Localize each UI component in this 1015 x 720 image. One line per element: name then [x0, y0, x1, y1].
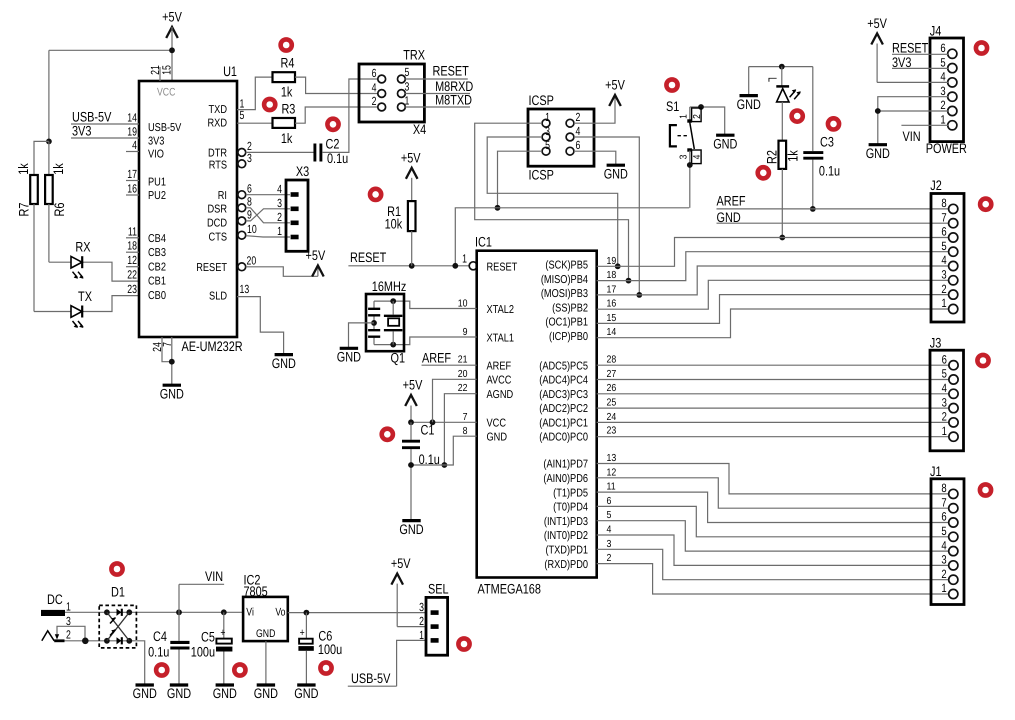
svg-text:RX: RX [75, 240, 90, 255]
svg-text:8: 8 [247, 195, 252, 209]
svg-text:VIN: VIN [205, 569, 223, 584]
svg-text:10: 10 [458, 299, 468, 310]
svg-text:11: 11 [128, 224, 137, 238]
svg-text:7: 7 [941, 495, 947, 509]
svg-text:DTR: DTR [208, 148, 227, 160]
svg-text:CB4: CB4 [148, 233, 166, 245]
svg-text:(ADC0)PC0: (ADC0)PC0 [539, 431, 588, 443]
svg-text:12: 12 [607, 467, 617, 478]
svg-text:USB-5V: USB-5V [72, 110, 112, 125]
svg-text:9: 9 [463, 327, 468, 338]
svg-text:XTAL1: XTAL1 [487, 333, 515, 345]
svg-text:3: 3 [942, 395, 948, 409]
svg-text:+5V: +5V [401, 150, 421, 165]
svg-text:XTAL2: XTAL2 [487, 304, 515, 316]
svg-text:3: 3 [941, 553, 947, 567]
svg-text:RESET: RESET [350, 250, 387, 265]
svg-text:8: 8 [463, 426, 468, 437]
svg-text:10k: 10k [385, 217, 403, 232]
svg-text:RESET: RESET [433, 64, 470, 79]
svg-text:1: 1 [405, 94, 410, 108]
svg-text:6: 6 [941, 225, 947, 239]
svg-text:SEL: SEL [428, 582, 449, 597]
svg-text:(TXD)PD1: (TXD)PD1 [545, 545, 588, 557]
svg-text:0.1u: 0.1u [419, 452, 440, 467]
svg-text:X4: X4 [413, 122, 427, 137]
svg-text:4: 4 [692, 154, 703, 159]
svg-text:J1: J1 [930, 464, 942, 479]
svg-text:GND: GND [272, 356, 296, 371]
svg-text:D1: D1 [111, 585, 125, 600]
svg-text:X3: X3 [296, 164, 310, 179]
svg-text:(AIN1)PD7: (AIN1)PD7 [543, 459, 588, 471]
svg-text:AREF: AREF [422, 350, 451, 365]
svg-text:100u: 100u [191, 645, 215, 660]
svg-text:USB-5V: USB-5V [351, 671, 391, 686]
svg-text:3: 3 [607, 539, 612, 550]
svg-text:IC1: IC1 [475, 235, 492, 250]
svg-text:22: 22 [458, 383, 468, 394]
svg-text:VCC: VCC [487, 418, 506, 430]
svg-text:5: 5 [607, 510, 612, 521]
svg-text:GND: GND [399, 522, 423, 537]
svg-text:10: 10 [247, 222, 257, 236]
svg-text:18: 18 [127, 239, 137, 253]
svg-text:17: 17 [607, 284, 617, 295]
svg-text:19: 19 [607, 256, 617, 267]
svg-text:4: 4 [132, 138, 137, 152]
svg-text:16: 16 [607, 299, 617, 310]
svg-text:+: + [220, 627, 225, 639]
svg-text:TRX: TRX [403, 48, 425, 63]
svg-text:GND: GND [213, 686, 237, 701]
svg-text:CB0: CB0 [148, 290, 166, 302]
svg-text:(INT0)PD2: (INT0)PD2 [544, 530, 588, 542]
svg-text:1: 1 [940, 113, 946, 127]
svg-text:(MISO)PB4: (MISO)PB4 [541, 274, 588, 286]
svg-text:VCC: VCC [157, 87, 175, 99]
svg-text:AREF: AREF [487, 361, 512, 373]
svg-text:Vi: Vi [246, 606, 254, 618]
svg-text:SLD: SLD [209, 291, 227, 303]
svg-text:1: 1 [942, 424, 948, 438]
svg-text:(ADC3)PC3: (ADC3)PC3 [539, 389, 588, 401]
svg-text:15: 15 [160, 65, 174, 75]
svg-text:1: 1 [462, 251, 467, 265]
svg-text:R7: R7 [17, 203, 32, 217]
svg-text:GND: GND [713, 136, 737, 151]
svg-text:GND: GND [256, 628, 275, 640]
svg-text:2: 2 [941, 567, 947, 581]
svg-text:2: 2 [941, 282, 947, 296]
svg-text:GND: GND [337, 350, 361, 365]
svg-text:12: 12 [127, 253, 137, 267]
svg-text:C1: C1 [421, 423, 435, 438]
svg-text:3: 3 [545, 124, 550, 138]
svg-text:CTS: CTS [209, 232, 228, 244]
svg-text:RI: RI [218, 190, 227, 202]
svg-text:ICSP: ICSP [529, 93, 554, 108]
svg-text:17: 17 [127, 167, 137, 181]
svg-text:(ADC5)PC5: (ADC5)PC5 [539, 360, 588, 372]
svg-text:R2: R2 [764, 150, 779, 164]
svg-text:4: 4 [576, 124, 581, 138]
svg-text:2: 2 [419, 614, 424, 628]
svg-text:15: 15 [607, 313, 617, 324]
svg-text:14: 14 [127, 111, 137, 125]
svg-text:2: 2 [607, 553, 612, 564]
svg-text:(ADC1)PC1: (ADC1)PC1 [539, 418, 588, 430]
svg-text:23: 23 [127, 282, 137, 296]
svg-text:3: 3 [405, 80, 410, 94]
svg-text:AGND: AGND [487, 389, 514, 401]
svg-text:4: 4 [941, 538, 947, 552]
svg-text:U1: U1 [223, 64, 237, 79]
svg-text:+5V: +5V [867, 16, 887, 31]
svg-text:4: 4 [607, 525, 612, 536]
svg-text:28: 28 [607, 355, 617, 366]
svg-text:VIN: VIN [903, 129, 921, 144]
svg-text:7805: 7805 [244, 584, 269, 599]
svg-text:GND: GND [160, 386, 184, 401]
svg-text:0.1u: 0.1u [327, 151, 348, 166]
svg-text:6: 6 [247, 182, 252, 196]
svg-text:AE-UM232R: AE-UM232R [182, 339, 243, 354]
svg-text:5: 5 [545, 138, 550, 152]
svg-text:ICSP: ICSP [529, 168, 554, 183]
svg-text:6: 6 [576, 138, 581, 152]
svg-text:TX: TX [78, 289, 92, 304]
svg-text:RESET: RESET [487, 262, 518, 274]
svg-text:RESET: RESET [196, 262, 227, 274]
svg-text:100u: 100u [318, 642, 342, 657]
svg-text:GND: GND [737, 97, 761, 112]
svg-text:7: 7 [463, 412, 468, 423]
svg-text:3: 3 [679, 154, 690, 159]
svg-text:5: 5 [405, 65, 410, 79]
svg-text:13: 13 [607, 453, 617, 464]
svg-text:C5: C5 [201, 630, 215, 645]
svg-text:GND: GND [167, 686, 191, 701]
svg-text:13: 13 [240, 282, 250, 296]
svg-text:6: 6 [942, 352, 948, 366]
svg-text:(ADC2)PC2: (ADC2)PC2 [539, 403, 588, 415]
svg-text:1k: 1k [786, 150, 801, 162]
svg-text:2: 2 [576, 110, 581, 124]
svg-text:24: 24 [607, 412, 617, 423]
svg-text:1: 1 [941, 581, 947, 595]
svg-text:5: 5 [941, 239, 947, 253]
svg-text:1: 1 [679, 114, 690, 119]
svg-text:TXD: TXD [209, 104, 227, 116]
svg-text:1: 1 [941, 296, 947, 310]
svg-text:GND: GND [254, 686, 278, 701]
svg-text:PU1: PU1 [148, 177, 166, 189]
svg-text:Q1: Q1 [391, 351, 406, 366]
svg-text:6: 6 [372, 66, 377, 80]
svg-text:22: 22 [127, 268, 137, 282]
svg-text:26: 26 [607, 383, 617, 394]
svg-text:6: 6 [941, 510, 947, 524]
svg-text:2: 2 [277, 210, 282, 224]
svg-text:R3: R3 [281, 102, 295, 117]
svg-text:1k: 1k [51, 163, 66, 175]
svg-text:C2: C2 [326, 137, 340, 152]
svg-text:3: 3 [419, 600, 424, 614]
svg-text:RESET: RESET [892, 41, 929, 56]
svg-text:(INT1)PD3: (INT1)PD3 [544, 516, 588, 528]
svg-text:3: 3 [940, 84, 946, 98]
svg-text:4: 4 [941, 253, 947, 267]
svg-text:3: 3 [247, 151, 252, 165]
svg-text:J3: J3 [930, 336, 942, 351]
svg-text:DC: DC [47, 592, 63, 607]
svg-text:20: 20 [458, 369, 468, 380]
svg-text:11: 11 [607, 482, 616, 493]
svg-text:GND: GND [487, 432, 508, 444]
svg-text:S1: S1 [666, 99, 679, 114]
svg-text:3V3: 3V3 [148, 136, 164, 148]
svg-text:8: 8 [941, 196, 947, 210]
svg-text:GND: GND [717, 210, 741, 225]
svg-text:AREF: AREF [717, 194, 746, 209]
svg-text:+5V: +5V [162, 10, 182, 25]
svg-text:16MHz: 16MHz [372, 279, 407, 294]
svg-text:CB1: CB1 [148, 276, 166, 288]
svg-text:1k: 1k [16, 163, 31, 175]
svg-text:(T0)PD4: (T0)PD4 [553, 502, 588, 514]
svg-text:GND: GND [604, 166, 628, 181]
svg-text:4: 4 [277, 182, 282, 196]
svg-text:POWER: POWER [926, 141, 967, 156]
svg-text:(OC1)PB1: (OC1)PB1 [545, 317, 588, 329]
svg-text:25: 25 [607, 397, 617, 408]
svg-text:J2: J2 [930, 178, 942, 193]
svg-text:GND: GND [866, 146, 890, 161]
svg-text:20: 20 [247, 254, 257, 268]
svg-text:1: 1 [277, 224, 282, 238]
svg-text:M8TXD: M8TXD [435, 93, 472, 108]
svg-text:6: 6 [940, 41, 946, 55]
svg-text:CB3: CB3 [148, 247, 166, 259]
svg-text:18: 18 [607, 270, 617, 281]
svg-text:2: 2 [372, 94, 377, 108]
svg-text:+5V: +5V [391, 556, 411, 571]
svg-text:14: 14 [607, 327, 617, 338]
svg-text:2: 2 [942, 410, 948, 424]
svg-text:DSR: DSR [208, 204, 227, 216]
svg-text:J4: J4 [930, 24, 942, 39]
svg-text:2: 2 [66, 628, 71, 642]
svg-text:2: 2 [692, 114, 703, 119]
svg-text:3V3: 3V3 [892, 55, 912, 70]
svg-text:19: 19 [127, 125, 137, 139]
svg-text:(ICP)PB0: (ICP)PB0 [549, 331, 588, 343]
svg-text:R6: R6 [52, 202, 67, 216]
svg-text:1: 1 [419, 628, 424, 642]
svg-text:AVCC: AVCC [487, 375, 512, 387]
svg-text:(SS)PB2: (SS)PB2 [552, 303, 588, 315]
svg-text:GND: GND [294, 686, 318, 701]
svg-text:+5V: +5V [605, 78, 625, 93]
svg-text:USB-5V: USB-5V [148, 122, 182, 134]
svg-text:1: 1 [66, 600, 71, 614]
svg-text:3: 3 [941, 268, 947, 282]
svg-text:+5V: +5V [306, 248, 326, 263]
svg-text:4: 4 [372, 81, 377, 95]
svg-text:8: 8 [941, 481, 947, 495]
svg-text:0.1u: 0.1u [819, 163, 840, 178]
svg-text:(RXD)PD0: (RXD)PD0 [544, 559, 588, 571]
svg-text:7: 7 [941, 210, 947, 224]
svg-text:C4: C4 [153, 629, 167, 644]
svg-text:5: 5 [941, 524, 947, 538]
svg-text:3V3: 3V3 [72, 124, 92, 139]
svg-text:(ADC4)PC4: (ADC4)PC4 [539, 375, 588, 387]
svg-text:RTS: RTS [209, 160, 228, 172]
svg-text:16: 16 [127, 182, 137, 196]
svg-text:+5V: +5V [403, 378, 423, 393]
svg-text:VIO: VIO [148, 149, 164, 161]
svg-text:C3: C3 [820, 134, 834, 149]
svg-text:27: 27 [607, 369, 617, 380]
svg-text:3: 3 [277, 196, 282, 210]
svg-text:4: 4 [940, 70, 946, 84]
svg-text:2: 2 [940, 98, 946, 112]
svg-text:R4: R4 [281, 56, 295, 71]
svg-text:23: 23 [607, 426, 617, 437]
svg-text:21: 21 [458, 355, 468, 366]
svg-text:0.1u: 0.1u [148, 645, 169, 660]
svg-text:(SCK)PB5: (SCK)PB5 [545, 260, 588, 272]
svg-text:7: 7 [160, 342, 174, 347]
svg-text:(MOSI)PB3: (MOSI)PB3 [541, 288, 588, 300]
svg-text:+: + [300, 627, 305, 639]
svg-text:5: 5 [942, 367, 948, 381]
svg-text:4: 4 [942, 381, 948, 395]
svg-text:RXD: RXD [208, 118, 227, 130]
svg-text:ATMEGA168: ATMEGA168 [478, 582, 542, 597]
svg-text:(T1)PD5: (T1)PD5 [553, 487, 588, 499]
svg-text:1k: 1k [281, 131, 293, 146]
svg-text:1: 1 [545, 110, 550, 124]
svg-text:CB2: CB2 [148, 262, 166, 274]
svg-text:1k: 1k [281, 84, 293, 99]
svg-text:(AIN0)PD6: (AIN0)PD6 [543, 473, 588, 485]
svg-text:Vo: Vo [275, 606, 285, 618]
svg-text:5: 5 [940, 55, 946, 69]
svg-text:PU2: PU2 [148, 190, 166, 202]
svg-text:GND: GND [133, 686, 157, 701]
svg-text:6: 6 [607, 496, 612, 507]
svg-text:L: L [766, 77, 780, 82]
svg-text:DCD: DCD [207, 218, 227, 230]
